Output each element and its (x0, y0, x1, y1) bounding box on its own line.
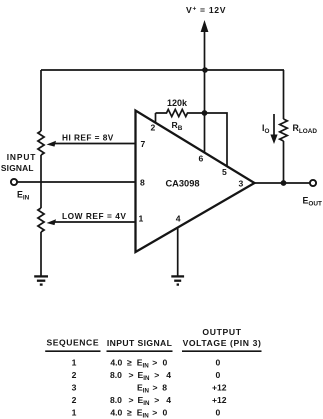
svg-text:3: 3 (72, 383, 77, 393)
svg-text:+12: +12 (212, 383, 227, 393)
svg-text:8.0>EIN>4: 8.0>EIN>4 (110, 370, 171, 382)
wire right rail upper (283, 70, 285, 119)
potentiometer HI REF (38, 131, 44, 155)
svg-text:4.0≥EIN>0: 4.0≥EIN>0 (110, 358, 167, 370)
svg-text:CA3098: CA3098 (165, 179, 199, 189)
svg-text:SEQUENCE: SEQUENCE (46, 337, 99, 347)
svg-text:4: 4 (176, 214, 181, 224)
terminal EIN (11, 179, 17, 185)
resistor RLOAD (280, 119, 288, 141)
ground pin4 (171, 276, 184, 284)
wire pin5 branch (205, 113, 228, 167)
node output junction (281, 180, 287, 186)
wire top rail (41, 69, 284, 71)
svg-text:EIN>8: EIN>8 (137, 383, 167, 395)
svg-text:0: 0 (216, 370, 221, 380)
table row 1 (72, 358, 221, 370)
svg-text:2: 2 (151, 123, 156, 133)
table row 2 (72, 370, 221, 382)
svg-text:1: 1 (139, 214, 144, 224)
node supply junction (202, 67, 208, 73)
svg-text:RLOAD: RLOAD (293, 123, 318, 135)
svg-text:3: 3 (239, 179, 244, 189)
op-amp U1 CA3098 (136, 111, 255, 253)
wire pin4 stub (177, 228, 179, 276)
svg-text:OUTPUT: OUTPUT (202, 327, 241, 337)
underline INPUT SIGNAL (107, 350, 173, 352)
svg-text:7: 7 (141, 139, 146, 149)
svg-text:2: 2 (72, 370, 77, 380)
svg-text:RB: RB (172, 120, 183, 132)
V+ supply arrow (201, 20, 209, 70)
wiper arrow LOW REF (47, 219, 137, 225)
svg-text:INPUT SIGNAL: INPUT SIGNAL (107, 338, 172, 348)
wire left rail lower (40, 232, 42, 276)
svg-text:+12: +12 (212, 395, 227, 405)
resistor RB 120k (156, 109, 205, 116)
svg-text:EIN: EIN (17, 190, 30, 202)
svg-text:0: 0 (216, 358, 221, 368)
table row 4 (72, 395, 227, 407)
svg-text:5: 5 (222, 167, 227, 177)
potentiometer LOW REF (38, 208, 44, 232)
ground left (34, 276, 48, 284)
svg-text:120k: 120k (167, 98, 188, 108)
svg-text:8: 8 (140, 178, 145, 188)
svg-text:0: 0 (216, 408, 221, 418)
svg-text:2: 2 (72, 395, 77, 405)
IO current arrow (270, 114, 277, 144)
underline SEQUENCE (45, 350, 100, 352)
svg-text:VOLTAGE (PIN 3): VOLTAGE (PIN 3) (183, 338, 262, 348)
wiper arrow HI REF (47, 141, 137, 147)
wire supply drop (204, 70, 206, 113)
underline VOLTAGE (PIN 3) (182, 350, 262, 352)
table row 3 (72, 383, 227, 395)
wire left rail mid (40, 155, 42, 208)
terminal EOUT (310, 180, 316, 186)
svg-text:LOW REF = 4V: LOW REF = 4V (62, 211, 126, 221)
wire left rail upper (40, 70, 42, 131)
svg-text:V+ = 12V: V+ = 12V (186, 5, 226, 15)
wire EIN to pin8 (17, 181, 135, 183)
svg-text:4.0≥EIN>0: 4.0≥EIN>0 (110, 408, 167, 419)
svg-text:EOUT: EOUT (303, 196, 322, 208)
node RB junction (202, 110, 208, 116)
wire right rail lower (283, 141, 285, 183)
table row 5 (72, 408, 221, 419)
svg-text:SIGNAL: SIGNAL (1, 163, 34, 173)
svg-text:8.0>EIN>4: 8.0>EIN>4 (110, 395, 171, 407)
svg-text:IO: IO (262, 123, 269, 135)
svg-text:HI REF = 8V: HI REF = 8V (62, 133, 114, 143)
wire pin6 stub (204, 113, 206, 153)
svg-text:INPUT: INPUT (7, 152, 37, 162)
svg-text:6: 6 (199, 154, 204, 164)
wire pin2 stub (155, 113, 157, 124)
svg-text:1: 1 (72, 408, 77, 418)
wire output (255, 182, 311, 184)
svg-text:1: 1 (72, 358, 77, 368)
label INPUT SIGNAL (1, 152, 36, 173)
